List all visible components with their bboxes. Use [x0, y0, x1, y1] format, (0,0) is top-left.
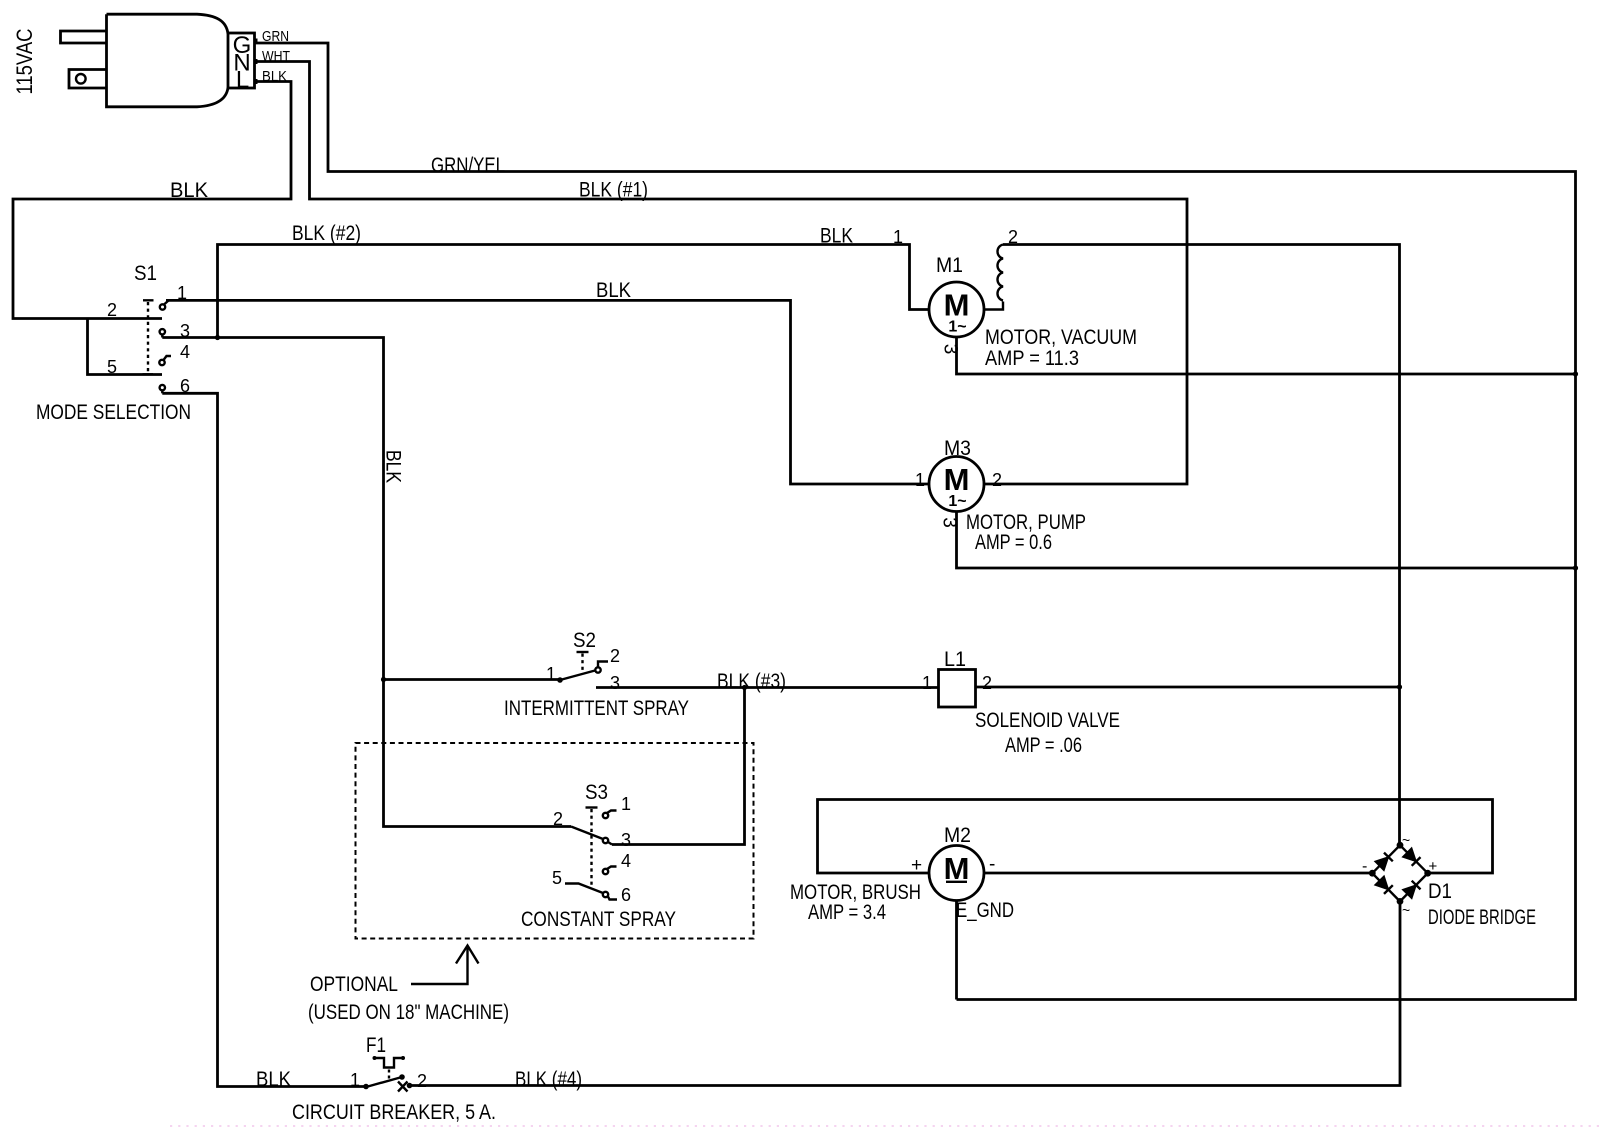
svg-text:BLK: BLK: [382, 450, 405, 483]
svg-text:M2: M2: [944, 824, 971, 847]
svg-text:BLK (#2): BLK (#2): [292, 222, 361, 245]
F1 actuator symbol: [374, 1058, 404, 1068]
svg-text:D1: D1: [1428, 880, 1452, 903]
svg-text:L: L: [236, 67, 249, 94]
F1 arm: [366, 1077, 402, 1087]
svg-text:BLK: BLK: [820, 225, 853, 248]
F1 pin 1 dot: [363, 1084, 369, 1090]
plug prong (neutral blade): [61, 31, 107, 43]
junction dot S1 pin3/BLK2: [215, 335, 220, 340]
svg-text:BLK (#4): BLK (#4): [515, 1068, 582, 1091]
svg-text:L1: L1: [944, 648, 966, 671]
svg-text:CIRCUIT BREAKER, 5 A.: CIRCUIT BREAKER, 5 A.: [292, 1101, 496, 1124]
wire S1 pin1 to M3 pin 1: [166, 300, 929, 484]
M1 run winding coil: [985, 245, 1003, 310]
S1 bracket pins 2-5: [88, 319, 163, 375]
svg-text:AMP = 0.6: AMP = 0.6: [975, 531, 1052, 554]
svg-text:GRN/YEL: GRN/YEL: [431, 154, 505, 177]
svg-text:1: 1: [350, 1070, 360, 1090]
scan artifact pink dotted line: [170, 1125, 1600, 1127]
terminal tick L: [256, 79, 258, 84]
wire M2 plus loop to D1 plus vertex: [818, 800, 1493, 874]
svg-text:F1: F1: [366, 1034, 386, 1057]
S1 pin 6 contact: [160, 385, 165, 390]
junction dot BLK#3/S3: [742, 685, 747, 690]
svg-text:6: 6: [621, 885, 631, 905]
S3 arm pins 2-3: [571, 827, 603, 840]
power plug P1 body: [107, 14, 229, 107]
svg-text:1~: 1~: [948, 319, 966, 336]
svg-text:1: 1: [621, 794, 631, 814]
svg-text:-: -: [1362, 858, 1367, 875]
svg-text:2: 2: [992, 470, 1002, 490]
junction dot right rail M3 pin3: [1573, 565, 1578, 570]
plug prong (ground pin): [69, 70, 107, 89]
D1 vertex dots: [1397, 842, 1404, 849]
wire WHT net: plug N down, right as BLK (#1), down to M3 pin 2: [255, 62, 1187, 485]
svg-text:5: 5: [552, 868, 562, 888]
wire BLK#3 tap down to S3 pin 3: [612, 688, 745, 845]
wire L1 pin 2 to D1 column: [976, 686, 1400, 689]
svg-text:M: M: [944, 462, 970, 497]
wire M2 minus to D1 minus vertex: [985, 872, 1373, 875]
svg-text:OPTIONAL: OPTIONAL: [310, 973, 398, 996]
svg-text:AMP = .06: AMP = .06: [1005, 734, 1082, 757]
svg-text:MODE SELECTION: MODE SELECTION: [36, 401, 191, 424]
svg-text:M: M: [944, 288, 970, 323]
svg-text:E_GND: E_GND: [956, 899, 1014, 922]
wire BLK (#2): S1 pin3 junction up to rail, right to M1 pin 1: [218, 245, 930, 338]
S3 pin 4 contact: [603, 869, 608, 874]
svg-text:BLK: BLK: [256, 1068, 291, 1091]
svg-text:1: 1: [893, 227, 903, 247]
svg-text:1~: 1~: [948, 493, 966, 510]
optional dashed box: [356, 743, 754, 939]
svg-text:4: 4: [180, 342, 190, 362]
S3 pin 6 contact: [603, 892, 608, 897]
wire S1 pin 3 down to S3 pin 2: [162, 338, 571, 827]
S1 pin 4 contact: [159, 360, 164, 365]
svg-text:2: 2: [982, 673, 992, 693]
wire S1 pin 6 down to F1 pin 1: [162, 393, 366, 1086]
svg-text:2: 2: [417, 1071, 427, 1091]
wire S2 pin 3 to L1 pin 1 (BLK #3): [596, 686, 939, 689]
plug terminal block G N L: [228, 33, 255, 88]
svg-text:+: +: [1429, 858, 1438, 875]
D1 diode top-left: [1376, 853, 1393, 870]
svg-text:MOTOR, VACUUM: MOTOR, VACUUM: [985, 326, 1137, 349]
svg-text:S3: S3: [585, 781, 608, 804]
svg-text:(USED ON 18" MACHINE): (USED ON 18" MACHINE): [308, 1001, 509, 1024]
wire M1 pin 3 to right rail: [957, 337, 1576, 374]
wire BLK net: plug L down, left, down left edge to S1 pin 2: [13, 82, 291, 319]
svg-text:3: 3: [621, 830, 631, 850]
svg-text:4: 4: [621, 851, 631, 871]
svg-text:1: 1: [546, 664, 556, 684]
motor M1 circle: [929, 282, 984, 337]
svg-text:1: 1: [922, 673, 932, 693]
svg-text:INTERMITTENT SPRAY: INTERMITTENT SPRAY: [504, 697, 689, 720]
S1 pin 3 contact: [160, 329, 165, 334]
S3 linkage: [586, 806, 598, 808]
S2 pin 2 contact: [595, 667, 600, 672]
svg-text:AMP = 11.3: AMP = 11.3: [985, 347, 1079, 370]
S2 arm: [560, 671, 595, 681]
junction dot right rail M1 pin3: [1573, 371, 1578, 376]
svg-text:DIODE BRIDGE: DIODE BRIDGE: [1428, 906, 1536, 929]
terminal tick N: [256, 59, 258, 64]
wire D1 bottom to BLK#4 line to F1 pin 2: [410, 901, 1401, 1085]
svg-text:M1: M1: [936, 254, 963, 277]
svg-text:115VAC: 115VAC: [12, 28, 37, 94]
D1 diode bottom-right: [1404, 881, 1421, 898]
svg-text:S2: S2: [573, 629, 596, 652]
svg-text:2: 2: [107, 300, 117, 320]
S1 pin 1 contact: [160, 304, 165, 309]
svg-text:BLK: BLK: [596, 279, 631, 302]
S3 pin 3 contact: [603, 838, 608, 843]
svg-text:2: 2: [610, 646, 620, 666]
motor M2 circle: [929, 846, 984, 901]
S3 pin 5 arm: [565, 884, 603, 894]
solenoid valve L1 box: [939, 670, 976, 708]
svg-text:3: 3: [610, 673, 620, 693]
svg-text:1: 1: [915, 470, 925, 490]
svg-text:~: ~: [1402, 902, 1410, 918]
OPTIONAL arrow: [411, 948, 468, 984]
svg-text:BLK (#3): BLK (#3): [717, 670, 786, 693]
S3 pin 1 contact: [603, 813, 608, 818]
svg-text:SOLENOID VALVE: SOLENOID VALVE: [975, 709, 1120, 732]
ground pin circle: [76, 74, 86, 84]
D1 diode bottom-left: [1376, 877, 1393, 894]
S1 linkage dashed: [143, 300, 154, 374]
F1 pin 2 dot: [407, 1083, 413, 1089]
svg-text:~: ~: [1402, 832, 1410, 848]
svg-text:AMP = 3.4: AMP = 3.4: [808, 901, 886, 924]
svg-text:BLK (#1): BLK (#1): [579, 179, 648, 202]
junction dot L1/D1 column: [1397, 684, 1402, 689]
F1 trip cross: [398, 1082, 408, 1092]
wire M3 pin 3 to right rail: [957, 512, 1576, 569]
wire GRN/YEL net: plug G to right rail down to E_GND line: [255, 43, 1576, 1000]
diode bridge D1 diamond: [1372, 845, 1427, 901]
S2 arm pivot dot: [557, 677, 563, 683]
svg-text:2: 2: [553, 809, 563, 829]
motor M3 circle: [929, 457, 984, 512]
svg-text:5: 5: [107, 357, 117, 377]
svg-text:S1: S1: [134, 262, 157, 285]
junction dot S2 pin 1 tap: [381, 677, 386, 682]
S2 linkage: [577, 651, 589, 653]
wire M2 E_GND down to ground line: [955, 901, 958, 1000]
svg-text:BLK: BLK: [170, 179, 208, 202]
terminal tick G: [256, 39, 258, 44]
svg-text:CONSTANT SPRAY: CONSTANT SPRAY: [521, 908, 676, 931]
D1 diode top-right: [1404, 849, 1421, 866]
wire to S2 pin 1: [384, 678, 561, 681]
wire M1 coil pin2 to right, down to D1 top: [1003, 245, 1400, 846]
